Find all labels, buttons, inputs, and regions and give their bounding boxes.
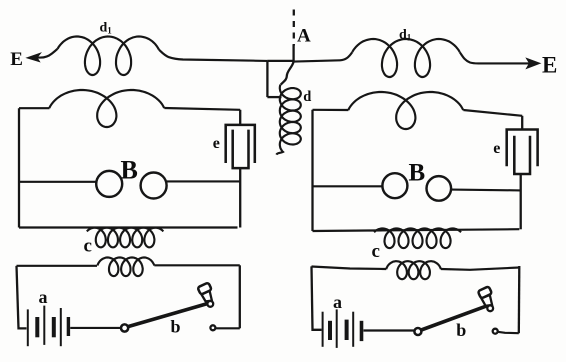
primary box (right): left edge [312,266,322,330]
key lever end circle (right) [487,305,493,311]
key lever b (right) [421,306,487,330]
left tank: top edge right segment [164,108,240,110]
wire: left drop vertical [266,61,268,97]
right tank: top edge left segment [313,109,349,111]
capacitor e (right) outer plate [507,130,538,167]
svg-text:a: a [333,292,342,312]
svg-text:b: b [456,320,466,340]
wire: coil d1 left to drop [159,50,267,61]
wire: top edge down to capacitor e (right) [521,116,523,130]
wire: battery to key pivot (left) [70,327,121,329]
primary box (right): top edge left segment [312,267,387,270]
key pivot (right) [414,328,421,335]
capacitor e (left) inner plate [233,130,249,169]
svg-text:A: A [297,26,311,47]
capacitor e (right) inner plate [514,136,530,174]
svg-text:d1: d1 [100,21,113,36]
gap-lamp B circle 1 (left) [96,171,122,197]
wire: contact to right edge (left box) [215,327,239,329]
battery a (left) [28,306,69,347]
key lever end circle (left) [207,301,213,307]
wire: capacitor e (right) to bottom edge [520,174,522,229]
wire: arrow into coil d1 left [38,49,58,58]
svg-text:e: e [213,135,220,152]
primary box (right): right edge [518,266,521,333]
svg-text:c: c [372,241,380,262]
wire: left tank middle wire (left part) [19,181,96,183]
wire: right tank middle wire (left part) [313,185,383,187]
primary coil (right) [386,261,441,279]
right tank: left edge [311,110,313,231]
key knob stem (left) [201,291,212,302]
inductor d1 (right) [352,39,459,77]
svg-text:E: E [542,52,557,77]
antenna lead-in (dashed) [293,10,295,46]
arrowhead to E (right) [527,58,541,68]
wire: branch node to left d1 drop [267,60,293,62]
primary box (right): top edge right segment [441,268,519,270]
wire: battery to key pivot (right) [364,329,415,331]
key lever b (left) [128,304,207,327]
right tank: top edge right segment [463,110,522,116]
key contact (right) [493,329,498,334]
gap-lamp B circle 2 (right) [427,176,452,201]
svg-text:c: c [84,236,92,257]
wire: capacitor e (left) to bottom edge [239,168,241,227]
primary coil (left) [97,258,154,277]
primary box (left): right edge [239,265,241,328]
wire: left tank middle wire (right part) [167,180,240,182]
gap-lamp B circle 1 (right) [382,173,407,198]
left tank: bottom edge [19,226,238,228]
left tank: left edge [18,108,20,227]
svg-text:d1: d1 [399,28,412,43]
svg-text:B: B [121,155,138,184]
right tank: bottom edge [313,229,520,231]
key knob cap (right) [478,286,492,298]
primary box (left): top edge left segment [17,265,98,267]
wire: coil d1 right to E arrow [460,52,529,63]
inductor c (left) [87,228,164,248]
inductor d1 (left) [58,37,159,76]
gap-lamp B circle 2 (left) [141,173,167,199]
key pivot (left) [121,324,128,331]
wire: contact to right edge (right box) [498,332,519,333]
wire: branch node S-curve to coil d [281,62,294,85]
svg-text:a: a [39,287,48,307]
wire: left drop to coil d [267,96,281,98]
wire: right tank middle wire (right part) [451,189,521,192]
arrowhead to E (left) [27,53,41,61]
coupling loop (left tank top) [49,90,164,127]
primary box (left): left edge [17,266,27,329]
capacitor e (left) outer plate [226,125,255,163]
svg-text:E: E [10,49,23,70]
svg-text:b: b [171,316,181,336]
wire: antenna down to branch node [292,45,294,62]
left tank: top edge left segment [19,107,50,109]
svg-text:e: e [493,140,500,157]
key knob stem (right) [481,295,492,306]
svg-text:B: B [409,159,426,186]
svg-text:d: d [303,89,311,105]
wire: top edge down to capacitor e (left) [239,110,241,125]
primary box (left): top edge right segment [154,264,240,266]
key knob cap (left) [197,282,211,294]
wire: branch node to coil d1 right [294,52,353,62]
coupling loop (right tank top) [348,92,463,129]
inductor c (right) [374,229,461,249]
inductor d (antenna helix) [276,85,300,155]
battery a (right) [323,309,362,348]
key contact (left) [210,325,215,330]
